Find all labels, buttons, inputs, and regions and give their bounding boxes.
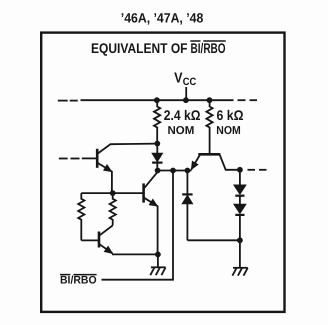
resistor R3: [78, 193, 84, 240]
node C riser junction: [170, 168, 176, 174]
wire bottom node to ground: [157, 254, 159, 267]
wire node E to D3: [239, 170, 241, 185]
transistor Q2: [144, 172, 158, 255]
wire node F to ground: [239, 240, 241, 267]
wire dashed right of node E: [248, 169, 267, 171]
node A R1-D1-Q1 collector junction: [154, 141, 160, 147]
svg-text:’46A, ’47A, ’48: ’46A, ’47A, ’48: [121, 11, 204, 26]
caption EQUIVALENT OF BI/RBO: [91, 40, 226, 56]
svg-text:V: V: [174, 71, 183, 87]
node Q1 emitter - R4 - Q2 base junction: [110, 190, 116, 196]
transistor Q1: [97, 144, 157, 194]
node D D2 junction: [185, 168, 191, 174]
resistor R1 2.4k: [154, 100, 160, 143]
wire mid horizontal to Q2 base: [81, 192, 142, 194]
node rail-VCC junction: [183, 97, 189, 103]
node E Q4 collector - diode chain junction: [237, 167, 243, 173]
wire R3 bottom to Q3 base: [81, 239, 98, 241]
svg-text:2.4 kΩ: 2.4 kΩ: [164, 107, 201, 123]
svg-text:EQUIVALENT OF: EQUIVALENT OF: [91, 40, 188, 56]
ground GND1: [150, 267, 165, 275]
node F D2-D4-GND junction: [237, 237, 243, 243]
svg-text:BI/RBO: BI/RBO: [60, 274, 97, 286]
diode D1: [152, 153, 162, 170]
node bottom Q2 emitter - Q3 emitter - GND junction: [155, 252, 161, 258]
svg-text:6 kΩ: 6 kΩ: [217, 107, 244, 123]
diode D3: [234, 185, 246, 204]
resistor R2 6k: [206, 100, 212, 153]
svg-text:NOM: NOM: [216, 125, 241, 137]
transistor Q4: [191, 154, 240, 170]
resistor R4: [110, 193, 116, 225]
value label 6 kOhm NOM: [216, 107, 243, 137]
svg-text:NOM: NOM: [168, 125, 195, 137]
wire riser node C to BI/RBO: [102, 171, 174, 280]
wire VCC stub: [185, 87, 187, 100]
wire input dashed to Q1 base: [59, 157, 97, 159]
wire top VCC rail (dashed left, solid center, dashed right): [58, 99, 257, 101]
net label BI/RBO: [60, 274, 97, 286]
node rail-R2 junction: [207, 97, 213, 103]
net VCC label: [174, 71, 197, 89]
wire mid rail B-C-D: [158, 170, 192, 172]
diode D2 (pointing up): [182, 194, 192, 240]
wire node A to D1: [156, 144, 158, 154]
ground GND2: [232, 268, 247, 276]
value label 2.4 kOhm NOM: [164, 107, 201, 137]
wire Q3 emitter to bottom node: [112, 253, 158, 255]
wire node D to D2: [186, 171, 188, 195]
svg-text:BI/RBO: BI/RBO: [191, 40, 226, 56]
wire D2 bottom to node F: [187, 239, 240, 241]
transistor Q3: [99, 226, 113, 254]
svg-text:CC: CC: [183, 76, 197, 88]
node rail-R1 junction: [154, 97, 160, 103]
diode D4: [234, 204, 246, 240]
node B D1-Q2 collector-rail junction: [155, 168, 161, 174]
